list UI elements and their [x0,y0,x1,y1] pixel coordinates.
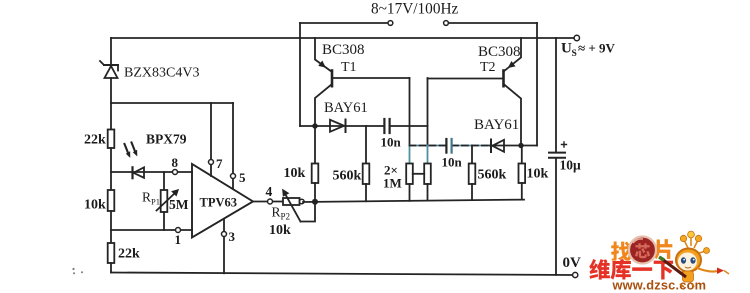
svg-text:10k: 10k [84,198,106,213]
op-amp U1 TPV63 [192,164,253,238]
wire pin5 drop [232,103,234,189]
terminal 0V [573,272,578,277]
diode D2 BAY61 (right) [491,140,504,153]
wire pin1 row [111,229,192,231]
pin 7 [209,160,214,165]
svg-text:BZX83C4V3: BZX83C4V3 [124,66,199,81]
watermark mascot [659,231,729,287]
transistor Q2 BC308 T2 [504,38,522,146]
wire left rail upper segment [110,38,112,65]
wire 22k to photodiode node [110,148,112,190]
potentiometer RP2 10k [283,189,316,221]
svg-text:10n: 10n [381,135,402,150]
diode D1 BAY61 (left) [330,120,346,133]
svg-text:S: S [572,49,577,59]
wire connector left drop to T1 collector node [299,23,301,126]
watermark logo 找芯片 / 维库一下 / www.dzsc.com + mascot [589,231,729,292]
junction T1 collector [312,123,317,128]
resistor R 22k (bottom) [108,243,115,263]
svg-text:BPX79: BPX79 [146,132,187,147]
svg-text:8: 8 [172,155,179,170]
junction output bus dot [312,199,318,205]
svg-text:0V: 0V [563,255,582,271]
svg-text:T1: T1 [341,60,357,75]
svg-text:3: 3 [229,229,236,244]
svg-text:1: 1 [175,232,182,247]
wire 10u cap to 0V rail [555,158,557,275]
svg-text:4: 4 [266,184,273,199]
capacitor C2 10n (right) [446,139,451,153]
resistor R 560k (right) [469,146,476,201]
svg-text:BC308: BC308 [478,44,521,60]
terminal Us supply [574,35,579,40]
svg-text:10k: 10k [527,167,549,182]
wire left rail bottom [110,263,112,273]
potentiometer RP1 5M [157,172,179,230]
junction T2 collector [518,143,523,148]
svg-text:22k: 22k [118,247,140,262]
photodiode BPX79 [125,143,145,179]
svg-text:10k: 10k [284,166,306,181]
wire regulated node to op-amp supply [111,102,233,104]
zener diode BZX83C4V3 [100,61,118,103]
svg-text:560k: 560k [478,168,507,183]
wire T1 base [332,77,410,79]
pin 4 output wire [253,201,283,203]
resistor R 22k (top) [108,130,115,149]
svg-text:≈ + 9V: ≈ + 9V [578,41,616,56]
wire top +V rail [111,37,574,39]
resistor R 10k (T2 load) [519,146,526,200]
watermark text 找芯片 [611,239,672,261]
resistor R 1M (left of pair) [406,164,413,201]
watermark chip logo circle [629,237,656,264]
wire output bottom bus [303,200,524,202]
transistor Q1 BC308 T1 [315,38,332,126]
resistor R 560k (left) [363,126,370,201]
svg-text:8~17V/100Hz: 8~17V/100Hz [371,1,459,18]
wire T2 base drop [427,78,429,146]
scan noise marks [72,268,83,274]
resistor R 1M (right of pair) [413,164,431,201]
svg-text:1M: 1M [383,176,402,191]
wire bottom 0V rail [111,273,572,276]
pin 5 [231,174,236,179]
capacitor C3 10u electrolytic [549,142,567,158]
svg-text:7: 7 [216,156,223,171]
svg-text:22k: 22k [84,133,106,148]
wire photodiode row to pin 8 [111,171,192,173]
input connector 8~17V/100Hz [300,21,537,26]
svg-text:10k: 10k [269,223,291,238]
svg-text:5M: 5M [169,197,189,212]
wire T2 base [428,78,504,80]
svg-text:T2: T2 [480,60,496,75]
wire 10k to 22k bottom [110,211,112,243]
svg-text:10μ: 10μ [560,158,582,173]
wire left rail to 22k [110,103,112,130]
pin 8 [173,170,178,175]
pin 3 wire [223,219,225,273]
svg-text:BC308: BC308 [322,42,365,58]
resistor R 10k (left rail) [108,190,115,211]
capacitor C1 10n (left) [384,119,389,133]
wire +V to 10u cap [555,38,557,152]
wire row B (T2 collector net) [410,145,491,147]
svg-text:RP2: RP2 [272,205,291,222]
wire row A (T1 collector net) [300,125,428,127]
svg-text:RP1: RP1 [142,190,160,207]
svg-text:5: 5 [239,170,246,185]
resistor R 10k (T1 load) [312,126,319,202]
wire T1 base drop [409,78,411,146]
svg-text:U: U [561,41,572,57]
svg-text:TPV63: TPV63 [200,196,238,210]
svg-text:BAY61: BAY61 [474,117,519,133]
svg-text:560k: 560k [333,169,362,184]
wire pin7 drop [210,103,212,176]
wire connector right drop to T2 collector node [536,23,538,146]
svg-text:10n: 10n [442,155,463,170]
svg-text:BAY61: BAY61 [324,100,368,116]
watermark text 维库一下 [589,259,673,280]
pin 1 [176,228,181,233]
